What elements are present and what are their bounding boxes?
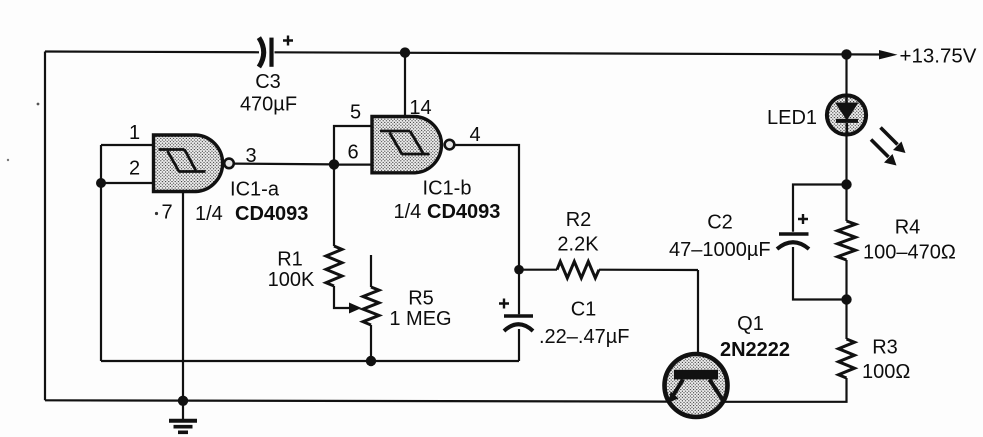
node junction pin14 rail bbox=[400, 47, 410, 57]
resistor R4 bbox=[838, 185, 956, 300]
LED LED1 bbox=[767, 95, 866, 134]
supply arrow +13.75V bbox=[879, 45, 977, 68]
wire pin 1 stub bbox=[101, 144, 154, 146]
svg-text:7: 7 bbox=[161, 202, 172, 224]
op... NAND gate IC1-a bbox=[154, 135, 234, 192]
node junction pins1-2 bbox=[96, 178, 106, 188]
svg-text:R1: R1 bbox=[277, 249, 303, 271]
node junction R4 top bbox=[841, 179, 851, 189]
svg-text:Q1: Q1 bbox=[737, 313, 764, 335]
label IC1-a bbox=[195, 179, 308, 226]
svg-text:47–1000µF: 47–1000µF bbox=[669, 239, 771, 261]
wire pin 2 stub bbox=[101, 182, 154, 184]
svg-text:2: 2 bbox=[129, 158, 140, 180]
svg-text:2.2K: 2.2K bbox=[557, 234, 599, 256]
node junction ground rail bbox=[178, 396, 188, 406]
svg-text:1/4: 1/4 bbox=[195, 203, 223, 225]
LED light arrow upper bbox=[881, 128, 906, 154]
wire collector to R3 bbox=[724, 378, 847, 402]
svg-text:LED1: LED1 bbox=[767, 107, 817, 129]
svg-text:100Ω: 100Ω bbox=[862, 361, 910, 383]
svg-text:+13.75V: +13.75V bbox=[900, 45, 977, 68]
wire pin 3 output bbox=[234, 163, 334, 166]
node junction pin3/5/6 bbox=[329, 159, 339, 169]
svg-text:C3: C3 bbox=[255, 71, 281, 93]
wire top rail left segment bbox=[45, 50, 259, 53]
wire mid-low rail (pins 1/2 to C1) bbox=[101, 360, 519, 362]
svg-text:CD4093: CD4093 bbox=[235, 203, 308, 225]
svg-text:1: 1 bbox=[129, 122, 140, 144]
node junction R5 bottom bbox=[366, 356, 376, 366]
svg-text:.22–.47µF: .22–.47µF bbox=[539, 326, 629, 348]
wire left rail bbox=[44, 52, 46, 401]
scan speck bbox=[7, 159, 9, 161]
svg-text:100K: 100K bbox=[268, 269, 315, 291]
wire Q1 base lead bbox=[697, 270, 699, 371]
svg-text:R3: R3 bbox=[872, 337, 898, 359]
resistor R1 bbox=[268, 164, 362, 313]
node junction R4 bottom bbox=[841, 294, 851, 304]
svg-text:IC1-b: IC1-b bbox=[423, 178, 472, 200]
ground bbox=[169, 401, 197, 433]
wire top rail right segment bbox=[275, 52, 881, 54]
wire LED anode bbox=[845, 54, 847, 95]
capacitor C2 bbox=[669, 185, 847, 300]
svg-text:2N2222: 2N2222 bbox=[720, 339, 790, 361]
node junction supply/LED bbox=[841, 49, 851, 59]
svg-text:CD4093: CD4093 bbox=[427, 201, 500, 223]
wire pin 7 to ground rail bbox=[182, 192, 184, 401]
svg-text:14: 14 bbox=[409, 97, 431, 119]
wire pin 5 loop bbox=[334, 126, 372, 164]
svg-text:5: 5 bbox=[350, 102, 361, 124]
wire pin1/2 vertical bbox=[100, 145, 102, 361]
svg-text:1 MEG: 1 MEG bbox=[389, 308, 451, 330]
svg-text:R5: R5 bbox=[408, 288, 434, 310]
wire bottom ground rail bbox=[45, 400, 668, 401]
capacitor C3 bbox=[240, 36, 297, 116]
svg-text:IC1-a: IC1-a bbox=[230, 179, 280, 201]
svg-text:100–470Ω: 100–470Ω bbox=[863, 242, 956, 264]
svg-text:470µF: 470µF bbox=[240, 94, 297, 116]
svg-text:R2: R2 bbox=[566, 209, 592, 231]
svg-text:1/4: 1/4 bbox=[394, 201, 422, 223]
potentiometer R5 bbox=[363, 255, 452, 361]
transistor Q1 bbox=[665, 313, 791, 417]
wire pin 14 bbox=[404, 52, 406, 116]
svg-text:4: 4 bbox=[469, 124, 480, 146]
LED light arrow lower bbox=[871, 140, 897, 166]
NAND gate IC1-b bbox=[372, 117, 454, 173]
wire LED cathode to R4 bbox=[845, 134, 847, 185]
svg-text:C1: C1 bbox=[571, 299, 597, 321]
wire pin 4 output bbox=[455, 145, 520, 270]
svg-text:C2: C2 bbox=[707, 212, 733, 234]
resistor R2 bbox=[519, 209, 698, 278]
svg-text:6: 6 bbox=[347, 142, 358, 164]
capacitor C1 bbox=[499, 270, 629, 361]
label IC1-b bbox=[394, 178, 501, 224]
pin label 7 bbox=[155, 202, 173, 224]
resistor R3 bbox=[839, 300, 911, 384]
scan speck bbox=[37, 103, 40, 106]
node junction pin4/R2/C1 bbox=[514, 265, 524, 275]
wire pin 6 stub bbox=[334, 164, 372, 166]
svg-text:R4: R4 bbox=[895, 217, 921, 239]
